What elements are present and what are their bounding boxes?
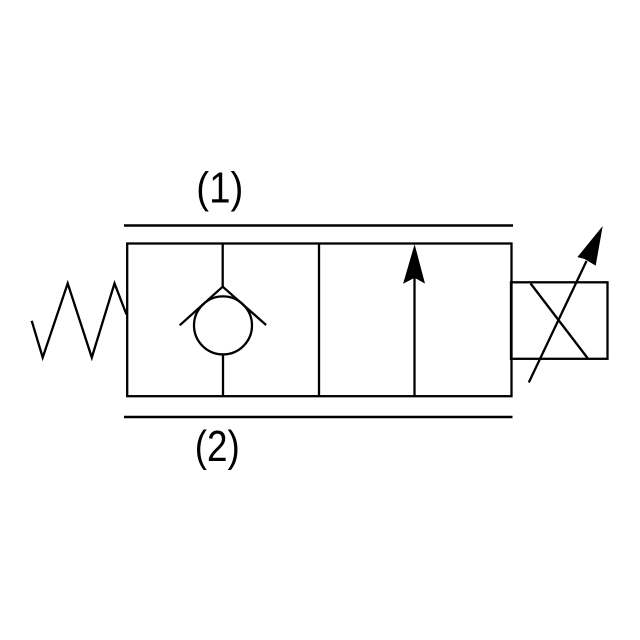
adjustment arrow head [577,226,602,266]
wire: port 1 rail line [124,224,513,227]
check valve ball [194,296,252,354]
wire: check valve lower flow line [222,354,224,396]
solenoid diagonal [531,284,588,359]
adjustment arrow shaft [529,261,587,383]
valve body outline [127,244,511,397]
wire: port 2 rail line [124,416,513,419]
svg-text:(2): (2) [195,422,240,471]
svg-text:(1): (1) [196,164,243,213]
valve body divider [318,244,320,397]
flow arrow shaft [413,277,415,396]
wire: check valve upper flow line [222,244,224,287]
check valve seat right [223,287,266,325]
solenoid U1 box [511,282,608,359]
check valve seat left [180,287,223,326]
spring [32,283,127,357]
flow arrow head [403,244,425,284]
